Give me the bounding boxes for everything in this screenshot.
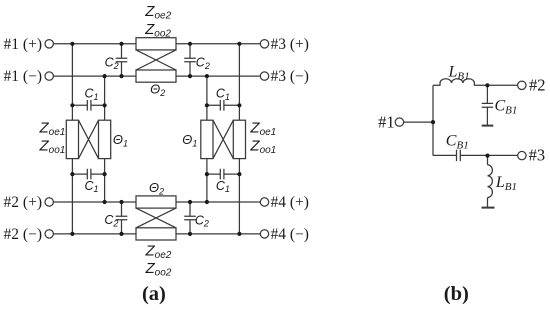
svg-text:#2 (+): #2 (+): [4, 194, 42, 211]
svg-text:(b): (b): [444, 283, 469, 305]
svg-text:#4 (+): #4 (+): [271, 194, 309, 211]
svg-text:#1 (+): #1 (+): [4, 36, 42, 53]
svg-text:#2: #2: [529, 76, 546, 95]
svg-text:#3: #3: [529, 146, 546, 165]
svg-text:#3 (+): #3 (+): [271, 36, 309, 53]
svg-text:#2 (−): #2 (−): [4, 226, 42, 243]
svg-text:#4 (−): #4 (−): [271, 226, 309, 243]
svg-text:#3 (−): #3 (−): [271, 68, 309, 85]
svg-text:#1 (−): #1 (−): [4, 68, 42, 85]
svg-text:#1: #1: [378, 113, 395, 132]
svg-text:(a): (a): [142, 283, 166, 305]
